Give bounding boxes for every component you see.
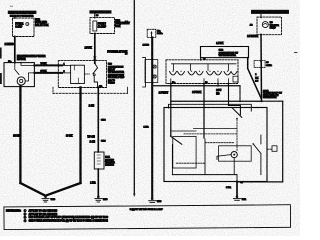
pump wire down <box>260 35 263 102</box>
motor internal: left contact <box>170 135 172 137</box>
ground G1 <box>44 195 47 198</box>
fuse F5 element <box>93 21 97 31</box>
motor box bottom terminal <box>236 181 238 183</box>
svg-text:75 BK: 75 BK <box>41 63 47 65</box>
svg-text:2 PU/BK: 2 PU/BK <box>192 92 201 94</box>
funnel diagonal left <box>20 183 44 195</box>
svg-text:S2/2: S2/2 <box>219 50 224 52</box>
svg-text:WIPER MOTOR: WIPER MOTOR <box>108 72 124 74</box>
svg-text:1.5 BK: 1.5 BK <box>216 43 223 45</box>
svg-text:W11: W11 <box>242 199 247 201</box>
wire fuse1 to wiper motor <box>14 37 16 63</box>
inline connector on pump wire <box>254 61 265 68</box>
wire into switch <box>200 58 202 60</box>
ground wire from motor <box>19 87 21 183</box>
svg-text:RD: RD <box>216 93 220 95</box>
svg-text:1 BR: 1 BR <box>226 187 231 189</box>
svg-text:WIPER/WASHER: WIPER/WASHER <box>219 54 237 57</box>
main feed connector dashed box (top) <box>147 29 156 37</box>
svg-text:W10: W10 <box>157 201 162 203</box>
svg-text:RELAY BOX: RELAY BOX <box>35 24 49 27</box>
svg-text:7.5 GN: 7.5 GN <box>87 137 95 139</box>
svg-text:8/92 S EXEMPLARY OF PUMP (THRO: 8/92 S EXEMPLARY OF PUMP (THROUGH) ILLUM… <box>29 216 109 219</box>
connector C2 <box>97 140 99 142</box>
svg-text:2 GN: 2 GN <box>89 106 95 108</box>
switch internal rail <box>172 63 237 65</box>
fuse F1 terminal top <box>14 17 16 19</box>
svg-text:COMBINATION: COMBINATION <box>108 65 124 68</box>
hot bar B2 HOT AT ALL TIMES <box>89 10 111 13</box>
svg-text:FUSE RELAY: FUSE RELAY <box>115 22 130 25</box>
svg-text:HOT IN RUN/START: HOT IN RUN/START <box>9 11 36 14</box>
svg-text:8 AMP: 8 AMP <box>15 26 22 29</box>
svg-text:1 BK/RD: 1 BK/RD <box>5 44 15 46</box>
ground wire from motor box <box>236 182 238 196</box>
svg-text:HOT AT ALL TIMES: HOT AT ALL TIMES <box>90 11 111 14</box>
svg-text:CONNECTOR: CONNECTOR <box>263 97 277 99</box>
svg-text:RELAY: RELAY <box>108 68 116 71</box>
svg-text:REVISIONS:: REVISIONS: <box>6 208 21 212</box>
washer pump M6 dashed box <box>257 17 282 35</box>
switch wafer arcs group 1 <box>170 72 185 76</box>
funnel diagonal right <box>46 183 80 195</box>
S2/2 label box wire top <box>201 47 249 58</box>
park contact stub outside box <box>267 148 272 150</box>
hot bar B3 (washer pump feed) <box>251 10 289 14</box>
svg-text:FUSE 5: FUSE 5 <box>98 23 107 25</box>
S2/2 label box <box>201 47 249 58</box>
svg-text:PUMP: PUMP <box>270 28 277 30</box>
svg-text:C120: C120 <box>101 141 106 143</box>
connector pair housing box <box>145 60 158 83</box>
motor M6/2 armature circle <box>17 77 25 85</box>
right contact <box>253 144 261 154</box>
cam lever <box>217 155 231 160</box>
switch terminal tab <box>233 76 238 82</box>
switch wafer arcs group 3 <box>207 72 222 76</box>
wire switch t2 down <box>203 84 205 139</box>
H1 drop at right <box>239 86 241 101</box>
wire from relay to washer nozzles <box>97 87 99 152</box>
switch bottom terminals <box>170 83 172 85</box>
svg-text:BOX: BOX <box>115 26 120 28</box>
svg-text:C2/1a: C2/1a <box>157 33 163 35</box>
relay K20 dashed box <box>58 61 106 88</box>
relay K20 contact <box>95 63 98 68</box>
motor M6/2 box <box>4 63 34 87</box>
motor internal: dashed links <box>184 133 237 135</box>
relay K20 coil box <box>71 65 85 83</box>
wiper motor assembly box <box>164 108 267 182</box>
motor M6/2 top terminals <box>14 62 16 64</box>
ground G2 <box>97 195 100 198</box>
svg-text:2 PU: 2 PU <box>216 90 221 92</box>
svg-text:M6 WINDSHIELD WSHR PUMP: M6 WINDSHIELD WSHR PUMP <box>252 11 288 14</box>
svg-text:2 PU/WT: 2 PU/WT <box>159 93 169 95</box>
wire switch t3 stub <box>217 84 219 86</box>
bus H2 <box>171 100 262 102</box>
svg-text:C120: C120 <box>101 120 106 122</box>
svg-text:53e: 53e <box>172 82 175 84</box>
ground wire from relay (funnel right) <box>79 87 81 183</box>
motor M6/2 bottom terminal <box>20 86 22 88</box>
off page wire (left of main feed) <box>133 0 135 194</box>
svg-text:WASHER PUMP: WASHER PUMP <box>108 76 125 79</box>
svg-text:10 BK: 10 BK <box>13 136 20 138</box>
svg-text:1 BR: 1 BR <box>144 127 149 129</box>
svg-text:1.5 RD: 1.5 RD <box>143 44 150 46</box>
svg-text:10A 70: 10A 70 <box>108 79 116 82</box>
svg-text:25 BK: 25 BK <box>41 71 47 73</box>
wire nozzle to ground <box>97 169 99 195</box>
svg-text:HEATED: HEATED <box>105 158 114 161</box>
wire loop right of motor box <box>262 100 283 102</box>
svg-text:MOTOR: MOTOR <box>17 59 26 61</box>
svg-text:WASHER: WASHER <box>105 161 115 164</box>
heated washer nozzle R box <box>94 152 104 169</box>
fuse/relay dashed outline bottom <box>53 92 128 94</box>
relay K20 top terminal 15 <box>94 62 96 64</box>
fuse F5 dashed box <box>90 18 115 34</box>
svg-text:FUSE AND: FUSE AND <box>35 21 47 24</box>
svg-text:NOZZLE: NOZZLE <box>105 165 114 167</box>
bracket right of K20 text <box>143 58 146 87</box>
svg-text:SEE POWER DISTRIBUTION FOR (G): SEE POWER DISTRIBUTION FOR (G) UP MY 198… <box>29 221 109 223</box>
fuse F1 dashed box <box>13 18 35 37</box>
hot bar B1 HOT IN RUN/START (top left) <box>8 11 37 14</box>
connector C1 <box>97 119 99 121</box>
small mark far right <box>295 52 298 54</box>
motor internal: verticals <box>204 139 206 175</box>
relay K20 bottom terminals <box>80 87 82 89</box>
relay K20 left terminals <box>61 65 63 67</box>
wire bar to fuse 1 <box>14 15 16 18</box>
ground G3 for main line <box>151 198 154 201</box>
svg-text:FUSE 1: FUSE 1 <box>15 23 24 25</box>
svg-text:APPLIES TO 124 CHASSIS: APPLIES TO 124 CHASSIS <box>29 209 58 212</box>
connector circle 2 <box>153 75 156 78</box>
svg-text:1 GN: 1 GN <box>90 141 96 143</box>
revisions box <box>4 205 291 230</box>
svg-text:W10: W10 <box>103 199 108 201</box>
svg-text:APPLIES TO 201 CHASSIS: APPLIES TO 201 CHASSIS <box>29 213 58 216</box>
svg-text:53: 53 <box>205 82 207 84</box>
svg-text:C2/1b: C2/1b <box>266 65 272 67</box>
svg-text:5 (G) UP MY 1988 USE 10.8 AMP: 5 (G) UP MY 1988 USE 10.8 AMP <box>130 208 164 211</box>
svg-text:30: 30 <box>96 15 98 17</box>
fuse F1 symbol circle <box>26 23 29 26</box>
pump motor circle <box>262 22 268 28</box>
wire motor to relay (31b) <box>34 72 62 74</box>
svg-text:M6/2 WINDSHIELD WIPER: M6/2 WINDSHIELD WIPER <box>17 56 46 58</box>
cam switch circle <box>231 152 237 158</box>
switch wafer arcs group 2 <box>188 72 203 76</box>
motor M6/2 internal wiring <box>15 63 19 75</box>
fuse F1 terminal bottom <box>14 36 16 38</box>
svg-text:R3/1: R3/1 <box>105 157 110 159</box>
diagonal wire from label box to H2 <box>248 58 262 99</box>
svg-text:INTERMITTENT: INTERMITTENT <box>108 74 125 76</box>
svg-text:16 AMP: 16 AMP <box>98 25 107 28</box>
ground G4 <box>236 195 239 198</box>
bottom rail <box>172 174 237 176</box>
motor internal: top right contact <box>232 108 242 118</box>
svg-text:W10: W10 <box>51 199 56 201</box>
svg-text:COMBINATION SW: COMBINATION SW <box>219 51 239 54</box>
park switch sub box <box>219 146 252 161</box>
bus H1 <box>152 85 240 87</box>
svg-text:2.5 BK/PK: 2.5 BK/PK <box>247 36 258 38</box>
wiper switch S2/2 dashed box <box>166 60 238 84</box>
svg-text:BK: BK <box>255 77 259 79</box>
svg-text:REFER TO POWER DISTR: REFER TO POWER DISTR <box>10 15 34 17</box>
wire switch t1 down <box>170 84 172 136</box>
svg-text:1 BR: 1 BR <box>90 182 96 184</box>
svg-text:WASHER: WASHER <box>270 24 280 27</box>
svg-text:PIN 20: PIN 20 <box>108 83 115 85</box>
main feed wire down <box>151 37 153 198</box>
svg-text:2.5 BK: 2.5 BK <box>85 48 92 50</box>
wire fuse5 to relay <box>94 34 96 64</box>
svg-text:10 BK: 10 BK <box>66 136 73 138</box>
wire motor to relay (53) <box>34 64 62 66</box>
switch wafer arcs group 4 <box>224 72 237 76</box>
wire switch t4 down + jog <box>229 84 241 115</box>
connector circle 1 <box>153 65 156 68</box>
bus H3 into motor box <box>169 104 252 111</box>
svg-text:F1/6: F1/6 <box>115 21 120 23</box>
crossing mark on feed wire <box>94 57 96 59</box>
